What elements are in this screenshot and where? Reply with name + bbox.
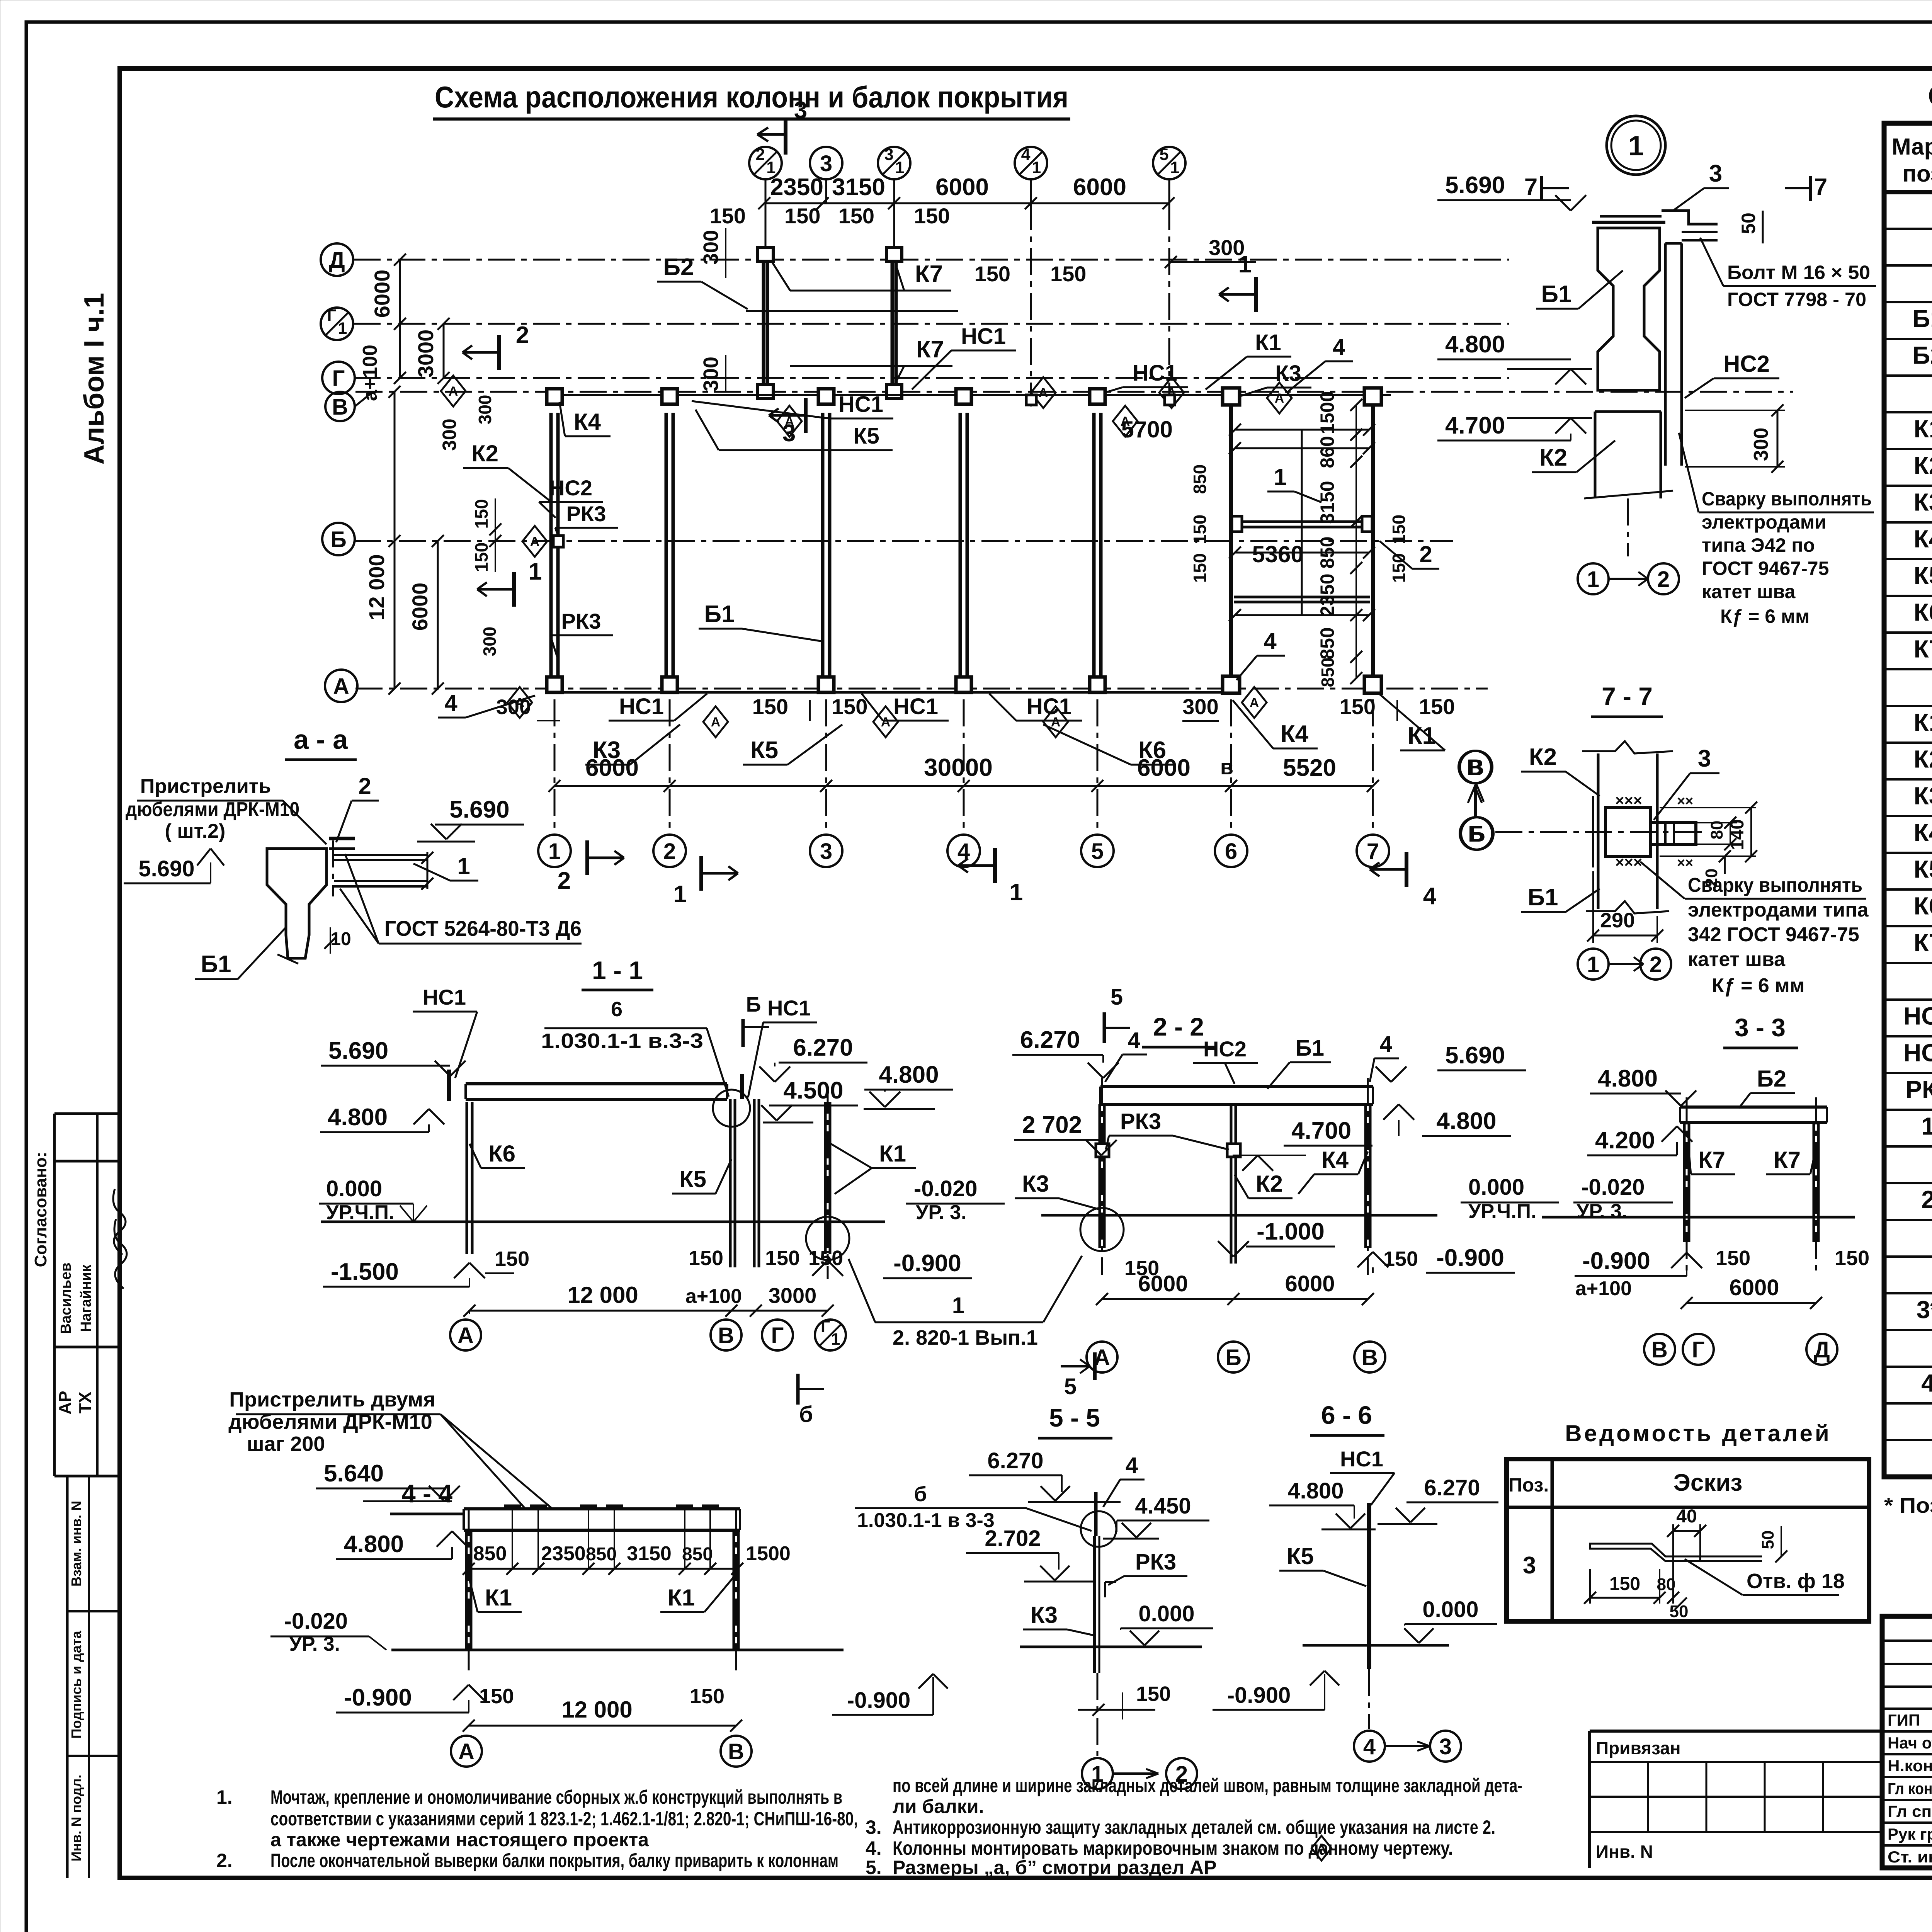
svg-text:7: 7 (1814, 174, 1827, 201)
svg-text:К4: К4 (1321, 1147, 1349, 1173)
svg-text:150: 150 (1389, 515, 1409, 544)
svg-text:После окончательной выверки ба: После окончательной выверки балки покрыт… (270, 1850, 838, 1871)
svg-text:НС1: НС1 (619, 694, 664, 719)
svg-text:4.200: 4.200 (1595, 1127, 1655, 1154)
section 2-2: bottom dims (1102, 1298, 1368, 1300)
svg-text:АР: АР (56, 1391, 75, 1414)
svg-text:4: 4 (1264, 628, 1277, 654)
title block main frame (1882, 1616, 1932, 1868)
svg-text:4: 4 (1423, 883, 1437, 910)
svg-text:-0.020: -0.020 (914, 1176, 977, 1201)
plan: cut mark 1 at Б left (512, 572, 516, 607)
svg-text:300: 300 (699, 230, 723, 265)
svg-text:-0.900: -0.900 (344, 1684, 412, 1711)
svg-text:5: 5 (1064, 1374, 1077, 1399)
svg-text:ли балки.: ли балки. (893, 1796, 984, 1817)
svg-text:-0.900: -0.900 (1227, 1683, 1291, 1708)
svg-text:1: 1 (1628, 131, 1644, 162)
svg-text:а - а: а - а (294, 724, 348, 755)
svg-text:5520: 5520 (1283, 755, 1336, 781)
svg-text:Подпись и дата: Подпись и дата (68, 1631, 84, 1739)
svg-text:Мочтаж, крепление и ономоличив: Мочтаж, крепление и ономоличивание сборн… (270, 1786, 842, 1808)
svg-text:ГИП: ГИП (1888, 1711, 1920, 1729)
svg-text:0.000: 0.000 (326, 1176, 382, 1201)
svg-text:150: 150 (710, 204, 746, 228)
svg-text:К6: К6 (488, 1141, 515, 1167)
plan: axis circle Д (321, 243, 353, 276)
svg-text:1: 1 (1238, 251, 1252, 278)
svg-text:1: 1 (1010, 879, 1023, 906)
svg-text:2.702: 2.702 (985, 1526, 1041, 1551)
section 4-4: top dim row (469, 1568, 737, 1570)
section 6-6: ground (1303, 1644, 1449, 1647)
detail 1: break line on column (1584, 491, 1673, 498)
svg-text:Д: Д (329, 248, 345, 273)
svg-text:К2: К2 (471, 440, 498, 466)
svg-text:К4: К4 (574, 409, 601, 435)
svg-text:2: 2 (663, 839, 676, 864)
svg-text:Эскиз: Эскиз (1673, 1469, 1743, 1496)
svg-text:Б: Б (746, 993, 761, 1016)
section 4-4: beam (464, 1507, 740, 1510)
svg-text:1: 1 (548, 839, 561, 864)
svg-text:150: 150 (1609, 1574, 1640, 1594)
svg-text:4: 4 (1380, 1032, 1392, 1057)
svg-text:4.: 4. (866, 1837, 882, 1859)
svg-text:4.800: 4.800 (879, 1061, 939, 1088)
section 1-1: НС post left (740, 1074, 744, 1099)
section 7-7: 290 dim (1592, 871, 1594, 943)
svg-text:В: В (1651, 1337, 1668, 1362)
svg-text:К7: К7 (1914, 929, 1932, 957)
svg-text:2: 2 (558, 867, 571, 894)
svg-text:катет шва: катет шва (1702, 581, 1796, 602)
svg-text:1 - 1: 1 - 1 (592, 956, 643, 985)
svg-text:1: 1 (529, 558, 542, 585)
section 3-3: beam (1680, 1105, 1827, 1109)
svg-text:Поз.: Поз. (1509, 1474, 1549, 1496)
section 4-4: ground (391, 1649, 844, 1651)
plan: top axis circles (749, 147, 782, 179)
svg-text:300: 300 (480, 627, 500, 656)
plan: axis circle В (325, 392, 355, 421)
plan: cut mark 2 left (497, 335, 501, 370)
svg-text:В: В (332, 395, 348, 420)
svg-text:РК3: РК3 (1905, 1076, 1932, 1104)
svg-text:Схема расположения колонн и ба: Схема расположения колонн и балок покрыт… (435, 80, 1068, 114)
svg-text:Б: Б (1468, 821, 1484, 847)
section 4-4: columns (465, 1530, 468, 1650)
svg-text:5 - 5: 5 - 5 (1049, 1403, 1100, 1432)
plan: left vertical dims (399, 260, 401, 378)
svg-text:НС2: НС2 (549, 476, 592, 500)
svg-text:150: 150 (975, 262, 1010, 286)
svg-text:5360: 5360 (1252, 541, 1303, 567)
svg-text:РК3: РК3 (561, 609, 601, 633)
svg-text:НС1: НС1 (423, 985, 466, 1009)
svg-text:НС2: НС2 (1903, 1039, 1932, 1067)
svg-text:12 000: 12 000 (561, 1697, 633, 1723)
section 3-3: ground (1542, 1216, 1855, 1219)
svg-text:6000: 6000 (1138, 1271, 1188, 1296)
svg-text:Пристрелить двумя: Пристрелить двумя (229, 1388, 435, 1411)
svg-text:50: 50 (1738, 213, 1759, 234)
svg-text:150: 150 (1835, 1247, 1869, 1270)
svg-text:6 - 6: 6 - 6 (1321, 1401, 1372, 1429)
section 1-1: cut mark б top (742, 1019, 745, 1047)
svg-text:* Позицию 3-см. ведомость дета: * Позицию 3-см. ведомость деталей (1884, 1493, 1932, 1517)
svg-text:300: 300 (475, 395, 495, 425)
cut mark 5 between sections (1093, 1352, 1097, 1380)
svg-text:2. 820-1 Вып.1: 2. 820-1 Вып.1 (893, 1326, 1038, 1349)
svg-text:А: А (457, 1323, 474, 1348)
svg-text:НС2: НС2 (1203, 1037, 1247, 1061)
svg-text:К2: К2 (1914, 452, 1932, 480)
svg-text:3: 3 (1439, 1734, 1452, 1759)
svg-text:3*: 3* (1917, 1296, 1932, 1324)
svg-text:Кƒ = 6 мм: Кƒ = 6 мм (1720, 605, 1810, 627)
svg-text:860: 860 (1316, 436, 1338, 468)
svg-text:150: 150 (784, 204, 820, 228)
svg-text:4.450: 4.450 (1135, 1493, 1191, 1519)
section 5-5: axis circles (1082, 1758, 1113, 1789)
svg-text:ГОСТ 9467-75: ГОСТ 9467-75 (1702, 558, 1829, 579)
svg-text:В: В (728, 1739, 744, 1764)
svg-text:дюбелями ДРК-М10: дюбелями ДРК-М10 (126, 798, 299, 821)
svg-text:Г: Г (332, 366, 345, 391)
svg-text:6000: 6000 (1285, 1271, 1335, 1296)
svg-text:К4: К4 (1914, 525, 1932, 553)
svg-text:1: 1 (895, 158, 904, 177)
svg-text:150: 150 (838, 204, 874, 228)
svg-text:150: 150 (765, 1247, 800, 1270)
title block left rows (1882, 1639, 1932, 1642)
svg-text:УР. 3.: УР. 3. (1577, 1200, 1628, 1223)
svg-text:Б2: Б2 (663, 254, 694, 281)
svg-text:Согласовано:: Согласовано: (31, 1152, 50, 1267)
plan: В-Б direction marker right (1460, 751, 1492, 783)
plan: diamond А marks on В axis (441, 376, 466, 406)
svg-text:6.270: 6.270 (1020, 1027, 1080, 1053)
svg-text:7: 7 (1367, 839, 1379, 864)
svg-text:850: 850 (473, 1543, 507, 1565)
svg-text:5: 5 (1091, 839, 1104, 864)
svg-text:×××: ××× (1615, 792, 1642, 809)
detail 1: bolt М16 (1682, 231, 1718, 233)
svg-text:3 - 3: 3 - 3 (1735, 1013, 1786, 1042)
svg-text:150: 150 (1389, 553, 1409, 583)
svg-text:Рук гр.: Рук гр. (1888, 1825, 1932, 1843)
svg-text:А: А (333, 674, 349, 699)
svg-text:4: 4 (444, 690, 457, 716)
svg-text:1: 1 (338, 319, 347, 338)
plan: cut mark 3 bottom-left (804, 398, 808, 433)
svg-text:30000: 30000 (924, 753, 993, 781)
svg-text:850: 850 (1318, 658, 1338, 687)
section 4-4: axis circles (451, 1736, 482, 1767)
section 6-6: axis circles (1354, 1731, 1385, 1762)
svg-text:6000: 6000 (1137, 755, 1190, 781)
plan: top dimension line 2350/3150/6000/6000 (764, 202, 1168, 204)
svg-text:поз.: поз. (1903, 161, 1932, 187)
svg-text:850: 850 (1316, 536, 1338, 568)
section а-а: anchor plate item 2 (329, 837, 355, 840)
plan: beams Б1 vertical (549, 413, 553, 685)
section 7-7: plate item 3 (1605, 808, 1651, 856)
svg-text:К2: К2 (1539, 444, 1567, 471)
svg-text:2350: 2350 (770, 174, 823, 201)
svg-text:Б2: Б2 (1912, 342, 1932, 369)
svg-text:850: 850 (682, 1544, 713, 1565)
svg-text:Г: Г (327, 306, 336, 325)
svg-text:3: 3 (820, 151, 832, 176)
svg-text:2: 2 (1921, 1186, 1932, 1214)
svg-text:электродами: электродами (1702, 511, 1827, 533)
svg-text:-1.000: -1.000 (1257, 1218, 1325, 1245)
plan: axis Д dash-dot line (354, 259, 1509, 261)
section 6-6: column (1367, 1503, 1371, 1669)
svg-text:4: 4 (1921, 1369, 1932, 1397)
svg-text:соответствии с указаниями сери: соответствии с указаниями серий 1 823.1-… (270, 1808, 858, 1830)
section 4-4: dowel marks on beam (504, 1505, 521, 1508)
svg-text:-0.900: -0.900 (1436, 1245, 1504, 1271)
svg-text:б: б (799, 1402, 813, 1427)
svg-text:1: 1 (831, 1330, 840, 1349)
svg-text:2: 2 (756, 145, 765, 164)
svg-text:850: 850 (1316, 627, 1338, 659)
svg-text:по всей длине и ширине закладн: по всей длине и ширине закладных деталей… (893, 1775, 1522, 1796)
svg-text:К7: К7 (1698, 1147, 1725, 1173)
svg-text:НС1: НС1 (893, 694, 938, 719)
vedomost table (1507, 1459, 1869, 1621)
svg-text:А: А (785, 414, 794, 429)
svg-text:4.700: 4.700 (1291, 1117, 1351, 1144)
svg-text:4: 4 (1128, 1028, 1140, 1053)
svg-text:А: А (1250, 696, 1259, 710)
svg-text:Нач отд: Нач отд (1888, 1734, 1932, 1752)
svg-text:4.800: 4.800 (1445, 331, 1505, 358)
svg-text:1: 1 (1587, 952, 1599, 977)
svg-text:5.690: 5.690 (449, 796, 509, 823)
svg-text:342 ГОСТ 9467-75: 342 ГОСТ 9467-75 (1688, 923, 1859, 946)
svg-text:Размеры „а, б” смотри раздел: Размеры „а, б” смотри раздел АР (893, 1857, 1217, 1878)
svg-text:140: 140 (1727, 819, 1748, 850)
section 1-1: axis circles (469, 1311, 470, 1314)
svg-text:6.270: 6.270 (793, 1034, 853, 1061)
svg-text:5.640: 5.640 (324, 1460, 384, 1487)
svg-text:ГОСТ 5264-80-Т3 Д6: ГОСТ 5264-80-Т3 Д6 (384, 916, 582, 940)
svg-text:-0.900: -0.900 (847, 1688, 910, 1713)
svg-text:3: 3 (1698, 745, 1711, 772)
svg-text:150: 150 (479, 1685, 514, 1708)
section а-а: beam Б1 cross profile (267, 849, 327, 958)
section 7-7: centre axis dash-dot (1495, 831, 1708, 833)
svg-text:К5: К5 (1914, 562, 1932, 590)
svg-text:А: А (515, 696, 525, 710)
plan: axis В line (355, 391, 1793, 393)
section 6-6: below-ground axis (1368, 1669, 1370, 1729)
svg-text:-0.020: -0.020 (1581, 1175, 1645, 1200)
svg-text:К1: К1 (1408, 723, 1435, 749)
svg-text:ТХ: ТХ (76, 1392, 95, 1413)
svg-text:150: 150 (1190, 515, 1210, 544)
svg-text:Взам. инв. N: Взам. инв. N (68, 1501, 84, 1587)
svg-text:К3: К3 (1022, 1171, 1049, 1197)
section 2-2: ground line (1041, 1214, 1437, 1217)
svg-text:А: А (458, 1739, 474, 1764)
svg-text:РК3: РК3 (1135, 1549, 1176, 1575)
plan: bottom axis circles 1-7 (554, 699, 556, 834)
svg-text:4.800: 4.800 (344, 1531, 404, 1558)
svg-text:4.800: 4.800 (1287, 1478, 1344, 1503)
svg-text:150: 150 (1050, 262, 1086, 286)
svg-text:2.: 2. (216, 1850, 233, 1871)
svg-text:1: 1 (1274, 464, 1286, 490)
svg-text:6: 6 (1225, 839, 1237, 864)
section 5-5: column (1094, 1492, 1098, 1536)
svg-text:4.500: 4.500 (783, 1077, 843, 1104)
svg-text:Отв. ф 18: Отв. ф 18 (1747, 1570, 1845, 1593)
svg-text:4: 4 (1363, 1734, 1376, 1759)
svg-text:1.030.1-1 в.3-3: 1.030.1-1 в.3-3 (541, 1029, 703, 1053)
plan: axis circle Б (322, 523, 355, 555)
svg-text:а также чертежами настоящего: а также чертежами настоящего проекта (270, 1829, 649, 1850)
svg-text:290: 290 (1600, 909, 1635, 932)
section 1-1: columns (466, 1102, 468, 1254)
svg-text:Б: Б (330, 527, 347, 552)
detail 1: beam Б1 profile (1598, 228, 1660, 390)
svg-text:А: А (449, 384, 458, 399)
svg-text:300: 300 (1750, 428, 1772, 461)
section 1-1: ground line (321, 1221, 885, 1223)
svg-text:Д: Д (1814, 1337, 1830, 1362)
svg-text:Пристрелить: Пристрелить (140, 775, 271, 798)
section 5-5: ground (1020, 1646, 1202, 1648)
plan: axis circle Г (322, 362, 355, 394)
svg-text:×××: ××× (1615, 854, 1642, 871)
svg-text:НС2: НС2 (1723, 351, 1770, 377)
svg-text:НС1: НС1 (961, 324, 1006, 349)
svg-text:2: 2 (1650, 952, 1662, 977)
section 3-3: columns (1683, 1122, 1686, 1242)
svg-text:Колонны монтировать маркиров: Колонны монтировать маркировочным знаком… (893, 1837, 1453, 1859)
svg-text:150: 150 (471, 499, 492, 529)
svg-text:1.: 1. (216, 1786, 233, 1808)
svg-text:150: 150 (1340, 694, 1376, 719)
svg-text:1: 1 (1921, 1112, 1932, 1140)
svg-text:150: 150 (690, 1685, 724, 1708)
svg-text:12 000: 12 000 (364, 554, 389, 620)
svg-text:УР.Ч.П.: УР.Ч.П. (326, 1201, 395, 1224)
svg-text:4.800: 4.800 (1436, 1108, 1496, 1134)
svg-text:5.690: 5.690 (1445, 1042, 1505, 1069)
svg-text:2: 2 (516, 322, 529, 349)
plan: axis Г line (354, 377, 1509, 379)
plan: РК3 console at Б (522, 526, 547, 557)
svg-text:Б1: Б1 (201, 951, 231, 978)
svg-text:Нагайник: Нагайник (78, 1264, 94, 1332)
svg-text:3.: 3. (866, 1816, 882, 1838)
svg-text:1500: 1500 (1316, 391, 1338, 434)
svg-text:К7: К7 (915, 261, 943, 287)
section 7-7: axis circles 1-2 (1578, 949, 1609, 980)
svg-text:А: А (881, 715, 891, 730)
svg-text:4.800: 4.800 (1598, 1065, 1658, 1092)
svg-text:Альбом I ч.1: Альбом I ч.1 (79, 293, 110, 465)
svg-text:300: 300 (439, 418, 460, 451)
plan: axis А line (355, 688, 1488, 690)
svg-text:4.700: 4.700 (1445, 412, 1505, 439)
svg-text:4: 4 (957, 839, 970, 864)
svg-text:6.270: 6.270 (1424, 1475, 1480, 1500)
svg-text:Антикоррозионную защиту закла: Антикоррозионную защиту закладных детале… (893, 1816, 1495, 1838)
svg-text:УР. 3.: УР. 3. (916, 1201, 967, 1224)
svg-text:Гл спец.: Гл спец. (1888, 1802, 1932, 1820)
svg-text:6000: 6000 (1729, 1275, 1779, 1300)
svg-text:Б: Б (1225, 1345, 1242, 1370)
svg-text:6000: 6000 (370, 270, 394, 318)
svg-text:1.030.1-1 в 3-3: 1.030.1-1 в 3-3 (857, 1509, 995, 1532)
svg-text:Болт М 16 × 50: Болт М 16 × 50 (1727, 262, 1870, 283)
svg-text:6000: 6000 (408, 583, 432, 631)
svg-text:3150: 3150 (1316, 481, 1338, 524)
svg-text:К1: К1 (1255, 330, 1281, 355)
svg-text:3: 3 (1709, 160, 1722, 187)
plan: bottom cut marks (585, 840, 589, 875)
svg-text:5.690: 5.690 (138, 856, 194, 881)
svg-text:7: 7 (1524, 174, 1537, 201)
detail 1: column К2 (1594, 412, 1597, 498)
plan: beam Б2 edge line (746, 310, 958, 312)
svg-text:К1: К1 (1914, 415, 1932, 443)
svg-text:850: 850 (586, 1544, 617, 1565)
section 2-2: axis circles (1087, 1342, 1117, 1372)
svg-text:К4: К4 (1914, 819, 1932, 847)
svg-text:50: 50 (1759, 1531, 1777, 1549)
section 4-4: cut mark б bottom (796, 1374, 800, 1405)
plan: bay horizontal members (1235, 429, 1369, 431)
svg-text:150: 150 (471, 543, 492, 572)
svg-text:5.: 5. (866, 1857, 882, 1878)
svg-text:1: 1 (1587, 567, 1599, 592)
svg-text:Васильев: Васильев (58, 1262, 74, 1334)
svg-text:К5: К5 (1287, 1543, 1314, 1569)
svg-text:1: 1 (1170, 158, 1179, 177)
svg-text:1: 1 (1032, 158, 1041, 177)
svg-text:К3: К3 (1031, 1602, 1058, 1628)
svg-text:6000: 6000 (935, 174, 989, 201)
svg-text:К2: К2 (1914, 745, 1932, 773)
svg-text:0.000: 0.000 (1422, 1597, 1478, 1622)
svg-text:Б1: Б1 (1296, 1036, 1324, 1061)
svg-text:Ведомость деталей: Ведомость деталей (1565, 1420, 1831, 1446)
svg-text:К1: К1 (1914, 709, 1932, 736)
svg-text:2 702: 2 702 (1022, 1112, 1082, 1138)
svg-text:3000: 3000 (769, 1283, 817, 1308)
section 1-1: beam (466, 1082, 727, 1085)
svg-text:2: 2 (358, 773, 371, 799)
svg-text:К6: К6 (1914, 892, 1932, 920)
svg-text:7 - 7: 7 - 7 (1602, 682, 1653, 711)
svg-text:Г: Г (771, 1323, 784, 1348)
svg-text:3000: 3000 (413, 330, 438, 378)
svg-text:ГОСТ 7798 - 70: ГОСТ 7798 - 70 (1727, 289, 1866, 310)
section 2-2: beam (1100, 1085, 1373, 1088)
plan: axis circle Г/1 (321, 308, 353, 340)
svg-text:××: ×× (1677, 793, 1693, 809)
plan: axis circle А (325, 670, 357, 702)
svg-text:Марка,: Марка, (1892, 134, 1932, 160)
